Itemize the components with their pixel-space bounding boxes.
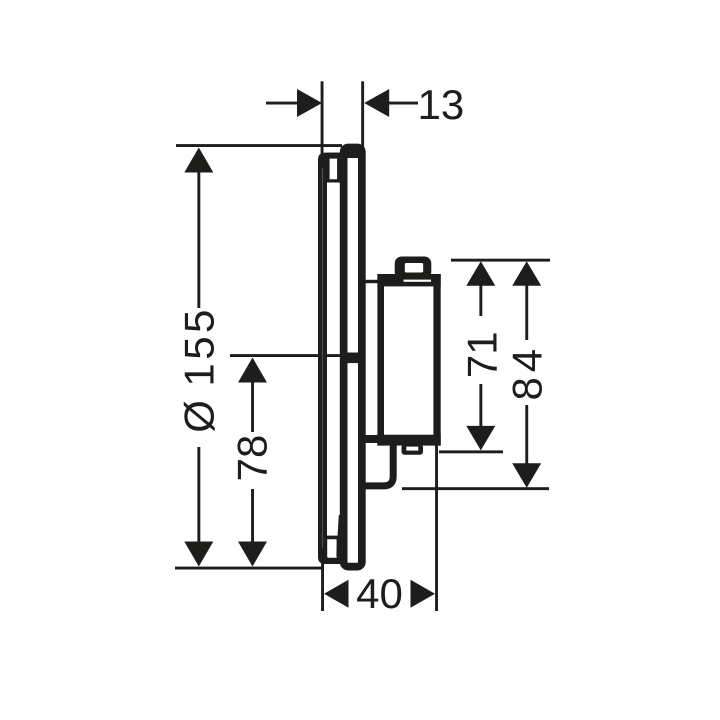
arrow left-pointing <box>364 89 389 117</box>
svg-text:Ø 155: Ø 155 <box>176 306 223 432</box>
arrow left-pointing <box>324 580 349 608</box>
wire: upper segment <box>251 381 254 432</box>
plate front face (left edge with top and bottom lips) <box>318 153 345 564</box>
extension line left (x=322) <box>321 81 324 165</box>
wire: lower segment <box>251 489 254 543</box>
dimension 40 (bottom) <box>321 444 438 617</box>
body top band <box>377 274 440 286</box>
arrow down <box>466 426 495 451</box>
arrow right-pointing <box>411 580 436 608</box>
wire: upper segment <box>525 285 528 340</box>
extension line right (x=362.6) <box>361 81 364 149</box>
arrow up <box>466 261 495 286</box>
retaining tab window <box>406 447 418 451</box>
bottom connector to carrier <box>364 435 379 443</box>
arrow right-pointing <box>297 89 322 117</box>
plate top window frame <box>327 153 345 183</box>
carrier outline <box>344 147 362 566</box>
valve stem crossbar <box>347 353 359 364</box>
control knob window <box>405 263 423 273</box>
dimension 84 (right outer) <box>402 261 551 490</box>
extension line (y=355.5) <box>230 354 341 357</box>
wire: upper segment <box>197 171 200 308</box>
wire: lower segment <box>197 447 200 543</box>
arrow up <box>512 261 541 286</box>
svg-text:13: 13 <box>418 81 465 128</box>
body left edge <box>377 274 384 446</box>
extension line bottom (y=568) <box>175 567 324 570</box>
top connector to carrier <box>364 280 379 283</box>
svg-text:84: 84 <box>504 344 551 401</box>
extension line top (y=259.5) <box>451 259 550 262</box>
arrow up <box>184 148 213 173</box>
arrow down <box>512 463 541 488</box>
extension line bottom (y=487.5) <box>402 487 549 490</box>
svg-text:71: 71 <box>459 331 506 378</box>
extension line top (y=146) <box>176 144 342 147</box>
lower step pipe <box>362 443 393 486</box>
arrow down <box>238 542 267 567</box>
wire: left leader line <box>266 102 298 105</box>
dimension 13 (top) <box>266 81 464 165</box>
svg-text:78: 78 <box>229 435 276 482</box>
retaining tab below body <box>402 444 424 455</box>
carrier plate (wall flange) <box>343 147 362 566</box>
wire: right leader line <box>388 102 418 105</box>
plate top inner slanted line <box>340 181 345 203</box>
arrow up <box>238 358 267 383</box>
plate bottom inner slanted line <box>336 515 341 556</box>
extension line bottom (y=451) <box>439 450 503 453</box>
arrow down <box>184 542 213 567</box>
plate highlight line <box>322 168 323 548</box>
extension line left (x=322.5) <box>321 552 324 611</box>
extension line right (x=435.5) <box>435 444 438 611</box>
dimension 71 (right inner) <box>439 259 550 454</box>
body top band sliver <box>404 280 432 282</box>
body bottom band <box>377 435 440 446</box>
dimension 78 (left inner) <box>229 354 341 566</box>
plate bottom window frame <box>327 536 345 564</box>
wire: lower segment <box>479 384 482 427</box>
carrier top band thickening <box>343 149 362 158</box>
wire: upper segment <box>479 285 482 316</box>
escutcheon plate (side view) <box>318 153 345 564</box>
valve cartridge body <box>362 257 441 486</box>
body right edge <box>433 274 440 446</box>
dimension Ø155 (left) <box>175 144 342 569</box>
wire: lower segment <box>525 405 528 464</box>
svg-text:40: 40 <box>356 570 403 617</box>
control knob <box>395 257 432 279</box>
